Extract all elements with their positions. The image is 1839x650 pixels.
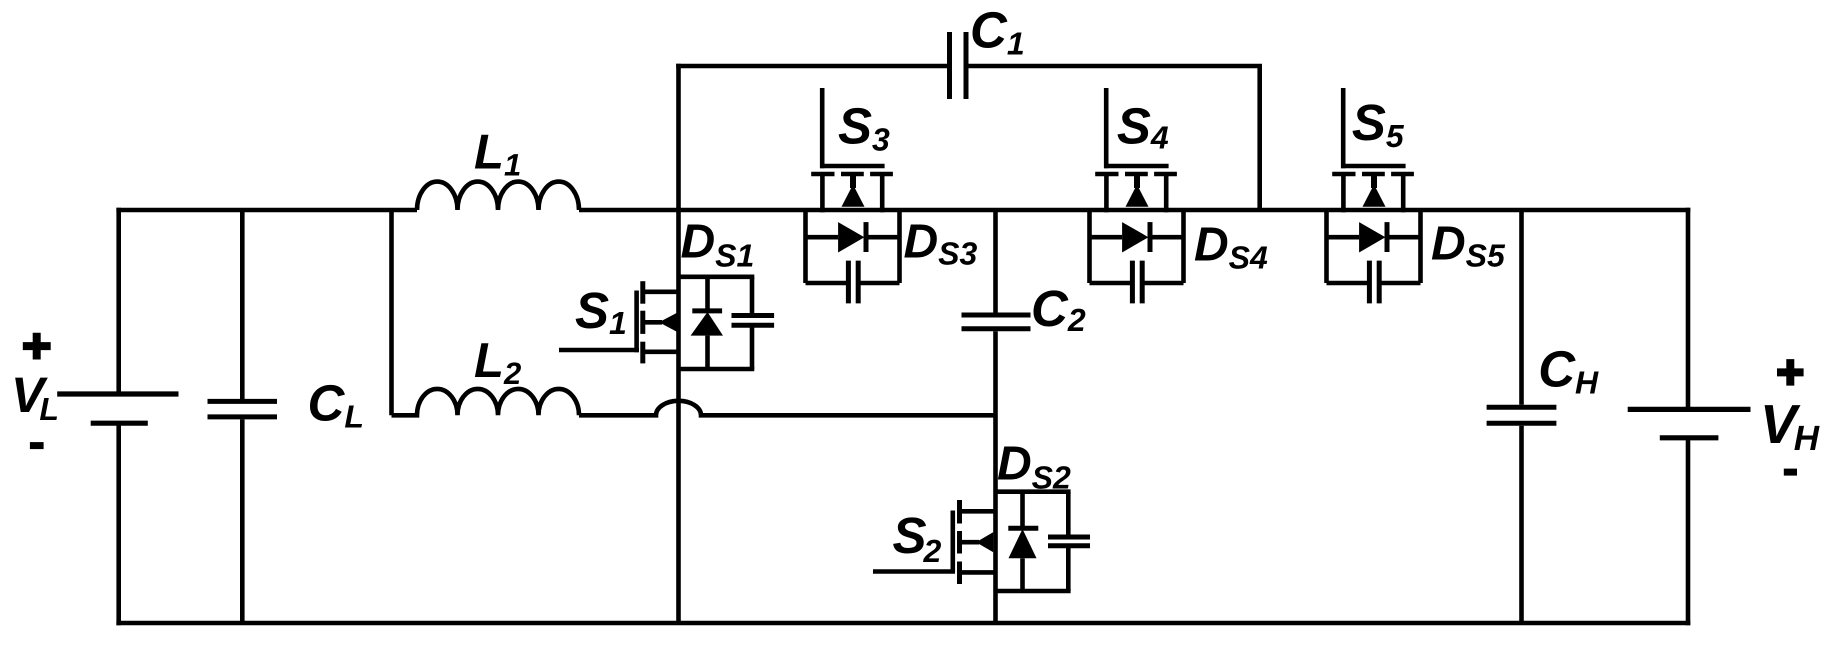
- label CL: [308, 375, 364, 435]
- minus sign of VL: [30, 442, 44, 449]
- wire L2 branch vertical: [389, 210, 394, 415]
- wire CH branch vertical upper: [1519, 210, 1524, 405]
- wire CH branch vertical lower: [1519, 426, 1524, 623]
- transistor S2: [873, 500, 996, 584]
- battery VH: [1628, 409, 1751, 437]
- wire C1 top right segment: [966, 64, 1262, 69]
- wire S1/C1 vertical: [676, 64, 681, 623]
- label S3: [838, 98, 890, 158]
- capacitor C1: [950, 32, 967, 99]
- diode-capacitor network DS5: [1327, 210, 1421, 303]
- diode-capacitor network DS3: [806, 210, 900, 303]
- label CH: [1538, 340, 1599, 400]
- inductor L1: [417, 182, 579, 210]
- capacitor CL: [208, 401, 278, 417]
- diode-capacitor network DS4: [1090, 210, 1184, 303]
- wire C1 right vertical: [1257, 66, 1262, 210]
- battery VL: [57, 394, 178, 423]
- label C1: [970, 2, 1025, 62]
- capacitor C2: [962, 315, 1031, 329]
- label S1: [575, 282, 627, 341]
- minus sign of VH: [1784, 469, 1797, 476]
- wire left vertical lower: [116, 423, 121, 625]
- plus sign of VH: [1777, 359, 1804, 386]
- label DS3: [904, 216, 978, 272]
- label VL: [11, 367, 59, 427]
- label DS4: [1194, 219, 1268, 276]
- wire right vertical upper: [1686, 208, 1691, 410]
- label C2: [1031, 280, 1086, 338]
- wire left vertical upper: [116, 208, 121, 394]
- label DS1: [681, 216, 755, 274]
- wire right vertical lower: [1686, 438, 1691, 626]
- wire L2 horizontal with hop over S1 line: [579, 401, 996, 416]
- transistor S3: [811, 88, 893, 212]
- label L1: [474, 126, 521, 183]
- label S5: [1352, 94, 1405, 154]
- label DS5: [1431, 218, 1506, 274]
- label L2: [474, 334, 521, 391]
- wire bottom horizontal: [116, 621, 1690, 626]
- diode-capacitor network DS1: [679, 277, 775, 369]
- label VH: [1760, 393, 1820, 458]
- diode-capacitor network DS2: [996, 492, 1091, 591]
- wire C2/S2 vertical lower: [993, 331, 998, 623]
- label DS2: [997, 438, 1071, 496]
- plus sign of VL: [23, 333, 51, 360]
- wire top horizontal left segment: [116, 208, 417, 213]
- inductor L2: [392, 389, 580, 415]
- wire top horizontal right segment: [579, 208, 1690, 213]
- wire CL branch vertical lower: [240, 419, 245, 623]
- transistor S4: [1095, 88, 1177, 212]
- transistor S5: [1332, 88, 1414, 212]
- transistor S1: [559, 281, 679, 363]
- label S4: [1117, 97, 1169, 155]
- wire C1 top left segment: [676, 64, 947, 69]
- wire CL branch vertical upper: [240, 210, 245, 399]
- wire C2/S2 vertical upper: [993, 210, 998, 313]
- capacitor CH: [1487, 407, 1557, 423]
- label S2: [893, 507, 942, 569]
